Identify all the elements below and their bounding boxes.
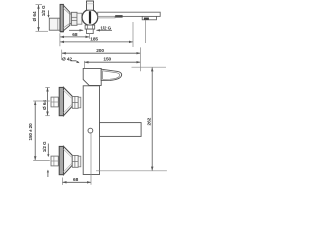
svg-text:150: 150 bbox=[103, 56, 111, 62]
svg-text:185: 185 bbox=[90, 37, 98, 43]
svg-text:1/2 G: 1/2 G bbox=[42, 141, 47, 152]
svg-text:150 ± 20: 150 ± 20 bbox=[28, 123, 33, 141]
svg-text:1/2 G: 1/2 G bbox=[41, 5, 46, 16]
svg-text:200: 200 bbox=[96, 48, 104, 54]
svg-text:Ø 64: Ø 64 bbox=[32, 11, 38, 21]
svg-text:68: 68 bbox=[73, 177, 79, 183]
svg-text:262: 262 bbox=[147, 117, 153, 125]
svg-text:68: 68 bbox=[72, 32, 78, 38]
svg-text:1/2 G: 1/2 G bbox=[100, 25, 111, 30]
svg-text:Ø 42: Ø 42 bbox=[62, 57, 72, 63]
